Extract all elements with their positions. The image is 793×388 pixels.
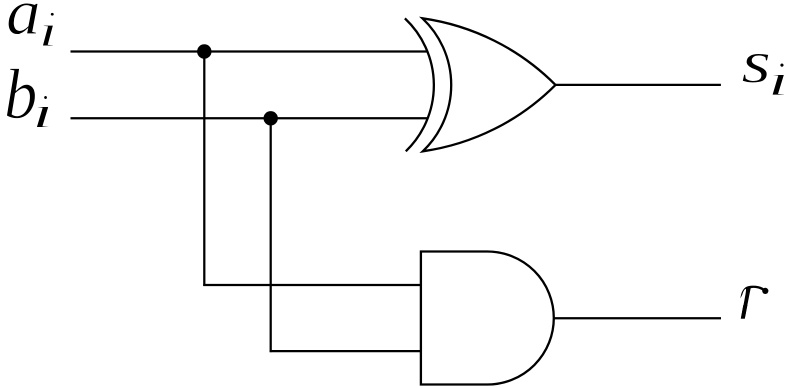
- node junction dot on a_i: [197, 44, 211, 58]
- label a: [8, 3, 38, 34]
- wire horizontal to AND gate top input: [203, 284, 421, 286]
- node junction dot on b_i: [264, 111, 278, 125]
- xor gate body: [422, 18, 555, 151]
- label s subscript i stem: [772, 75, 785, 96]
- label a subscript i dot: [50, 12, 54, 16]
- wire input a_i: [71, 50, 429, 52]
- label r stem bottom: [741, 305, 748, 319]
- xor gate input-side outer arc: [405, 18, 434, 151]
- label a subscript i stem: [42, 25, 53, 46]
- wire vertical drop from node on a_i: [203, 52, 205, 287]
- wire horizontal to AND gate bottom input: [270, 350, 421, 352]
- wire vertical drop from node on b_i: [270, 118, 272, 352]
- label b: [7, 68, 36, 118]
- label r ball terminal: [762, 288, 768, 294]
- label b subscript i stem: [36, 107, 49, 128]
- wire output s_i: [556, 84, 721, 86]
- label r: [740, 286, 766, 319]
- wire output r: [554, 317, 721, 319]
- and gate body: [421, 252, 554, 385]
- label s subscript i dot: [780, 63, 784, 67]
- label s: [742, 54, 768, 83]
- label b subscript i dot: [44, 96, 48, 100]
- wire input b_i: [71, 117, 429, 119]
